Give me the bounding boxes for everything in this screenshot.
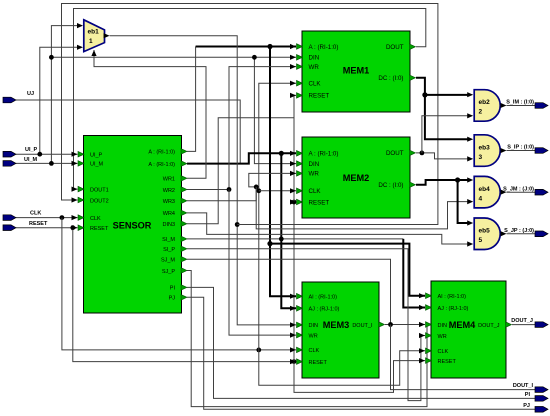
svg-text:MEM2: MEM2 (343, 173, 370, 183)
svg-text:MEM4: MEM4 (449, 320, 476, 330)
wire WR2 down to MEM3 WR (229, 190, 296, 336)
wire MEM4 DOUT_J to output port (512, 324, 536, 326)
wire eb1 out loop to SENSOR DOUT2 (62, 4, 438, 225)
svg-text:AJ : (RJ-1:0): AJ : (RJ-1:0) (309, 307, 340, 313)
svg-text:A : (RI-1:0): A : (RI-1:0) (309, 44, 339, 51)
svg-text:WR4: WR4 (163, 211, 175, 217)
svg-text:S_JM : (J:0): S_JM : (J:0) (503, 186, 534, 192)
wire UJ from input port (16, 100, 240, 163)
gate eb2 (474, 90, 506, 122)
junction WR2 (227, 187, 232, 192)
svg-text:A : (RI-1:0): A : (RI-1:0) (148, 162, 175, 168)
gate eb5 (474, 218, 506, 250)
svg-text:RESET: RESET (29, 221, 48, 227)
svg-text:WR: WR (309, 64, 320, 71)
wire eb5 out to S_JP port (507, 233, 536, 235)
wire eb4 out to S_JM port (507, 191, 536, 193)
input port UI_P (3, 147, 38, 157)
wire UI_M branch to MEM1 DIN (51, 56, 296, 58)
wire UI_M to SENSOR (16, 162, 78, 164)
wire eb3 out to S_IP port (507, 150, 536, 152)
svg-text:PI: PI (170, 286, 176, 292)
svg-text:WR: WR (309, 171, 320, 178)
svg-text:eb4: eb4 (479, 186, 491, 193)
wire SI_M to MEM4 AJ (187, 238, 403, 240)
wire CLK to MEM2 CLK (259, 190, 296, 192)
junction node DIN1 (49, 55, 54, 60)
svg-text:A : (RI-1:0): A : (RI-1:0) (309, 151, 339, 158)
svg-text:DOUT_J: DOUT_J (511, 318, 533, 324)
input port UJ (3, 91, 34, 103)
wire RESET bottom corridor to MEM4 RESET (294, 361, 425, 393)
wire PI to output port (187, 287, 536, 398)
wire SI_P to MEM4 WR (187, 249, 425, 401)
svg-text:RESET: RESET (309, 360, 328, 366)
wire A1 branch to MEM4 AI (270, 244, 425, 296)
svg-text:4: 4 (479, 195, 483, 202)
svg-text:AI : (RI-1:0): AI : (RI-1:0) (438, 294, 467, 300)
gate eb3 (474, 135, 506, 167)
output port S_IP (507, 145, 548, 154)
svg-text:DOUT1: DOUT1 (90, 187, 109, 193)
wire eb1 out to MEM3 DIN (110, 36, 296, 325)
svg-text:DOUT_I: DOUT_I (513, 383, 534, 389)
junction eb1 out (235, 222, 240, 227)
junction DOUT_I (388, 322, 393, 327)
wire A1 bus to MEM1 A (196, 46, 296, 48)
svg-text:CLK: CLK (309, 81, 322, 88)
svg-text:DIN: DIN (309, 55, 320, 62)
wire RESET up to MEM2 RESET (294, 202, 296, 362)
svg-text:eb1: eb1 (88, 29, 100, 36)
wire RESET down-left rail (73, 228, 296, 362)
wire DOUT_I to output port (391, 325, 537, 390)
wire SENSOR A2 bus to MEM2 A (187, 153, 296, 163)
junction UI_P (37, 152, 42, 157)
svg-text:eb5: eb5 (479, 228, 491, 235)
svg-text:DIN: DIN (309, 161, 320, 168)
svg-text:RESET: RESET (438, 359, 457, 365)
svg-text:5: 5 (479, 237, 483, 244)
gate eb4 (474, 176, 506, 208)
svg-text:UI_P: UI_P (90, 153, 103, 159)
junction DC2 (455, 177, 460, 182)
wire branch to MEM2 DIN (254, 57, 296, 163)
svg-text:CLK: CLK (438, 349, 449, 355)
wire MEM2 DC to eb4 top (416, 180, 468, 185)
input port CLK (3, 211, 41, 221)
svg-text:SI_P: SI_P (163, 247, 175, 253)
wire SI_M drop to MEM4 AJ (403, 239, 425, 308)
svg-text:DIN: DIN (309, 323, 319, 329)
wire WR1 to eb1 select (94, 50, 206, 178)
svg-text:eb2: eb2 (479, 99, 491, 106)
svg-text:WR1: WR1 (163, 177, 175, 183)
wire DOUT2 up to eb2 bottom (422, 116, 468, 153)
svg-text:AJ : (RJ-1:0): AJ : (RJ-1:0) (438, 306, 469, 312)
junction RESET MEM3 (292, 359, 297, 364)
wire WR3 branch to eb4 lower input (256, 187, 468, 229)
junction CLK (60, 215, 65, 220)
svg-text:DOUT_I: DOUT_I (352, 323, 373, 329)
wire CLK bottom corridor to MEM4 CLK (259, 350, 425, 385)
svg-text:S_IM : (I:0): S_IM : (I:0) (506, 100, 534, 106)
wire PJ to output port (187, 297, 536, 409)
svg-text:MEM1: MEM1 (343, 66, 370, 76)
svg-text:SJ_M: SJ_M (161, 258, 175, 264)
svg-text:UI_M: UI_M (24, 157, 38, 163)
svg-text:UI_P: UI_P (25, 147, 38, 153)
wire UI_P to SENSOR (16, 153, 78, 155)
svg-text:DIN: DIN (438, 323, 448, 329)
wire RESET to SENSOR (16, 227, 78, 229)
block MEM1 (297, 31, 416, 112)
wire A1 bus down to MEM3 AI (270, 47, 296, 297)
svg-text:DC : (I:0): DC : (I:0) (378, 182, 403, 189)
svg-text:DC : (I:0): DC : (I:0) (378, 75, 403, 82)
wire DC1 down to eb3 top (425, 95, 468, 139)
wire DC2 down to eb5 top (458, 180, 468, 223)
junction RESET (70, 225, 75, 230)
svg-text:S_IP : (I:0): S_IP : (I:0) (507, 145, 534, 151)
wire SJ_M (187, 259, 391, 324)
junction UI_M (49, 161, 54, 166)
block MEM3 (297, 282, 385, 378)
svg-text:RESET: RESET (309, 199, 330, 206)
wire UI_P up to eb1 input 2 (40, 47, 77, 154)
output port PJ (523, 403, 548, 412)
junction A1 bus (267, 44, 272, 49)
svg-text:A : (RI-1:0): A : (RI-1:0) (148, 150, 175, 156)
svg-text:PI: PI (525, 392, 531, 398)
mux eb1 (84, 20, 110, 52)
output port DOUT_I (513, 383, 548, 392)
junction node DIN2 (252, 55, 257, 60)
svg-text:MEM3: MEM3 (323, 320, 350, 330)
input port UI_M (3, 157, 38, 166)
svg-text:DOUT: DOUT (386, 44, 404, 51)
wire arrowheads (72, 23, 474, 364)
wire MEM1 DC to eb2 top (416, 78, 468, 95)
svg-text:SJ_P: SJ_P (162, 269, 175, 275)
junction CLK MEM2 (256, 188, 261, 193)
svg-text:RESET: RESET (309, 93, 330, 100)
wire CLK to SENSOR (16, 217, 78, 219)
wire DIN3 bridge to MEM1 RESET (187, 118, 294, 224)
wire CLK down-left rail (62, 218, 296, 350)
svg-text:RESET: RESET (90, 226, 109, 232)
svg-text:UI_M: UI_M (90, 162, 104, 168)
svg-text:WR2: WR2 (163, 188, 175, 194)
wire MEM2 DOUT to eb3 bottom (416, 153, 468, 159)
wire WR3 jog to MEM2 WR (187, 173, 296, 200)
svg-text:WR: WR (309, 333, 318, 339)
svg-text:2: 2 (479, 109, 483, 116)
svg-text:CLK: CLK (90, 216, 101, 222)
wire CLK up to MEM1 CLK (259, 83, 296, 350)
svg-text:UJ: UJ (27, 91, 34, 97)
svg-text:CLK: CLK (30, 211, 41, 217)
input port RESET (3, 221, 48, 230)
output port S_IM (506, 100, 548, 109)
junction A2 bus (279, 151, 284, 156)
svg-text:DOUT: DOUT (386, 150, 404, 157)
svg-text:CLK: CLK (309, 188, 322, 195)
junction A1 branch (267, 241, 272, 246)
svg-text:eb3: eb3 (479, 144, 491, 151)
svg-text:PJ: PJ (523, 403, 530, 409)
junction SI_M x A2 (279, 237, 284, 242)
block SENSOR (78, 136, 187, 314)
svg-text:WR: WR (438, 334, 447, 340)
output port PI (525, 392, 548, 401)
svg-text:S_JP : (J:0): S_JP : (J:0) (504, 228, 534, 234)
wire UI_M up to eb1 input 1 (51, 26, 77, 164)
svg-text:3: 3 (479, 154, 483, 161)
svg-text:PJ: PJ (169, 296, 176, 302)
wire A2 bus down to MEM3 AJ (281, 153, 296, 308)
junction CLK rail bottom (256, 348, 261, 353)
junction DOUT2 (420, 151, 425, 156)
junction DC1 (422, 92, 427, 97)
wire MEM1 DOUT loop to SENSOR DOUT1 (74, 9, 426, 190)
wire SENSOR A1 up (187, 47, 196, 152)
wire up to MEM1 RESET (294, 95, 296, 117)
output port DOUT_J (511, 318, 548, 327)
svg-text:DOUT_J: DOUT_J (478, 323, 500, 329)
junction RESET MEM2 (292, 200, 297, 205)
wire eb2 out to S_IM port (507, 105, 536, 107)
svg-text:DIN3: DIN3 (162, 222, 175, 228)
output port S_JP (504, 228, 548, 237)
block MEM4 (426, 281, 512, 378)
wire MEM3 DOUT_I to MEM4 DIN (385, 324, 425, 326)
wire WR4 to eb5 lower input (187, 213, 468, 244)
svg-text:DOUT2: DOUT2 (90, 198, 109, 204)
output port S_JM (503, 186, 548, 195)
svg-text:AI : (RI-1:0): AI : (RI-1:0) (309, 295, 338, 301)
wire SJ_P corridor (187, 271, 427, 407)
svg-text:SI_M: SI_M (162, 237, 175, 243)
junction WR3 (254, 185, 259, 190)
svg-text:CLK: CLK (309, 348, 320, 354)
svg-text:1: 1 (89, 38, 93, 45)
svg-text:WR3: WR3 (163, 199, 175, 205)
wire WR2 up to MEM1 WR (187, 67, 296, 190)
block MEM2 (297, 137, 416, 218)
svg-text:SENSOR: SENSOR (113, 221, 152, 231)
